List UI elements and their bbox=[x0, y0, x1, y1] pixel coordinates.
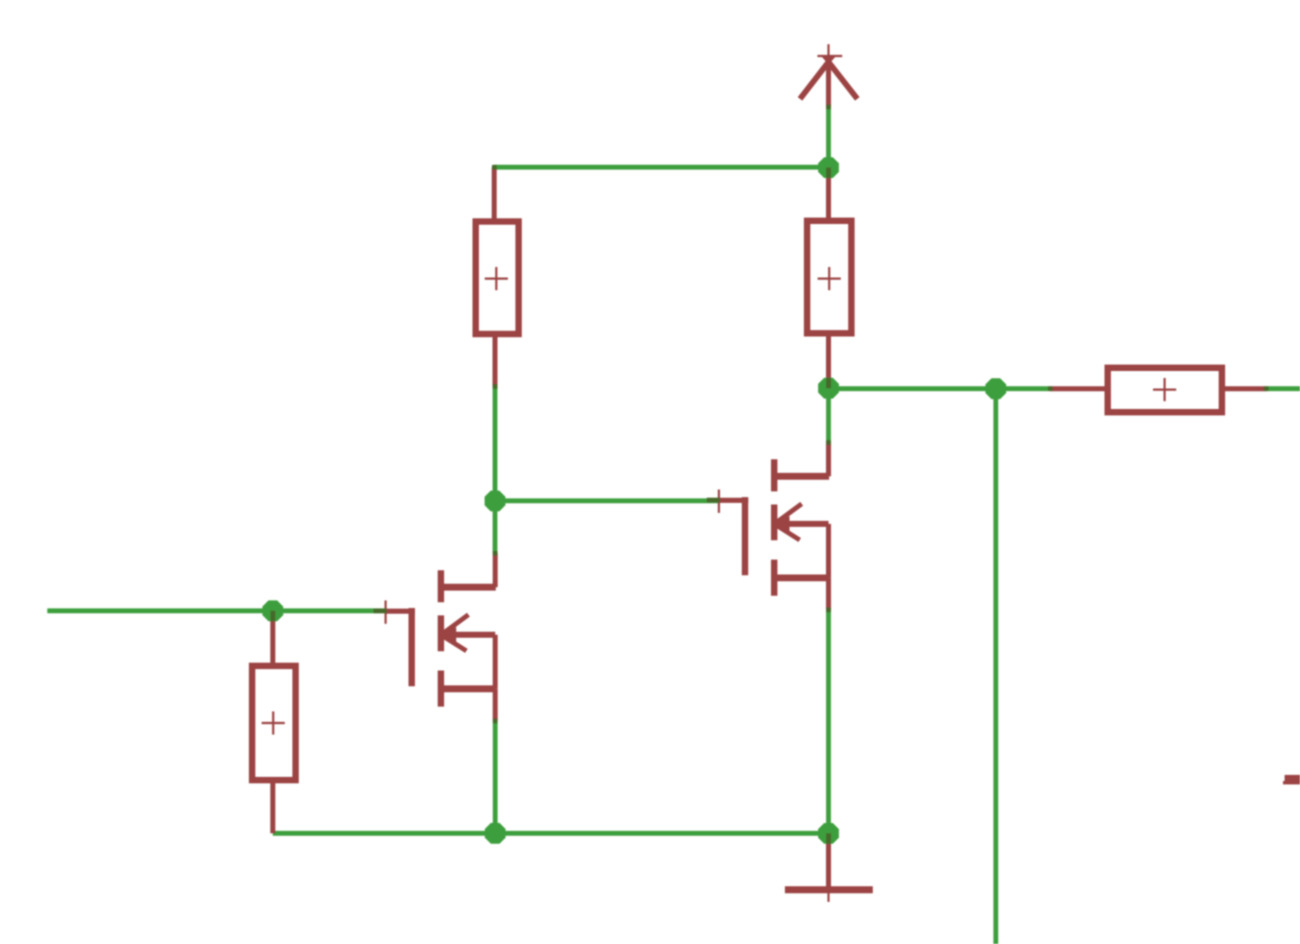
node junction A (top rail / power) bbox=[818, 157, 839, 178]
resistor R3 bbox=[252, 611, 296, 833]
ground bbox=[785, 834, 873, 902]
node junction B (M1 drain / M2 gate) bbox=[485, 491, 506, 512]
node junction G (bottom rail / ground) bbox=[818, 823, 839, 844]
wire R1 bottom to M1 drain bbox=[493, 386, 498, 553]
wire input net bbox=[47, 608, 386, 613]
wire M1 source down bbox=[493, 721, 498, 833]
wire right of R4 bbox=[1266, 386, 1300, 391]
pin overlap marks bbox=[271, 105, 1269, 844]
resistor R1 bbox=[476, 167, 519, 386]
wire power stub bbox=[826, 107, 831, 167]
partial component at right edge bbox=[1283, 775, 1300, 785]
wire top rail bbox=[494, 165, 828, 170]
wire output down bbox=[993, 389, 998, 944]
wire bottom rail bbox=[273, 831, 829, 836]
transistor Q2 bbox=[707, 442, 829, 610]
power symbol VCC bbox=[800, 44, 857, 107]
wire M2 source down bbox=[826, 610, 831, 833]
node junction C (R2 bottom / output) bbox=[818, 378, 839, 399]
transistor Q1 bbox=[374, 553, 496, 721]
resistor R2 bbox=[807, 168, 851, 388]
wire output net bbox=[829, 386, 1051, 391]
wire M1 drain to M2 gate bbox=[495, 498, 719, 503]
wire R2 bottom to M2 drain bbox=[826, 388, 831, 442]
node junction F (bottom rail / M1 source) bbox=[485, 823, 506, 844]
node junction D (output branch) bbox=[985, 378, 1006, 399]
resistor R4 bbox=[1050, 368, 1267, 412]
node junction E (input / R3) bbox=[262, 600, 283, 621]
